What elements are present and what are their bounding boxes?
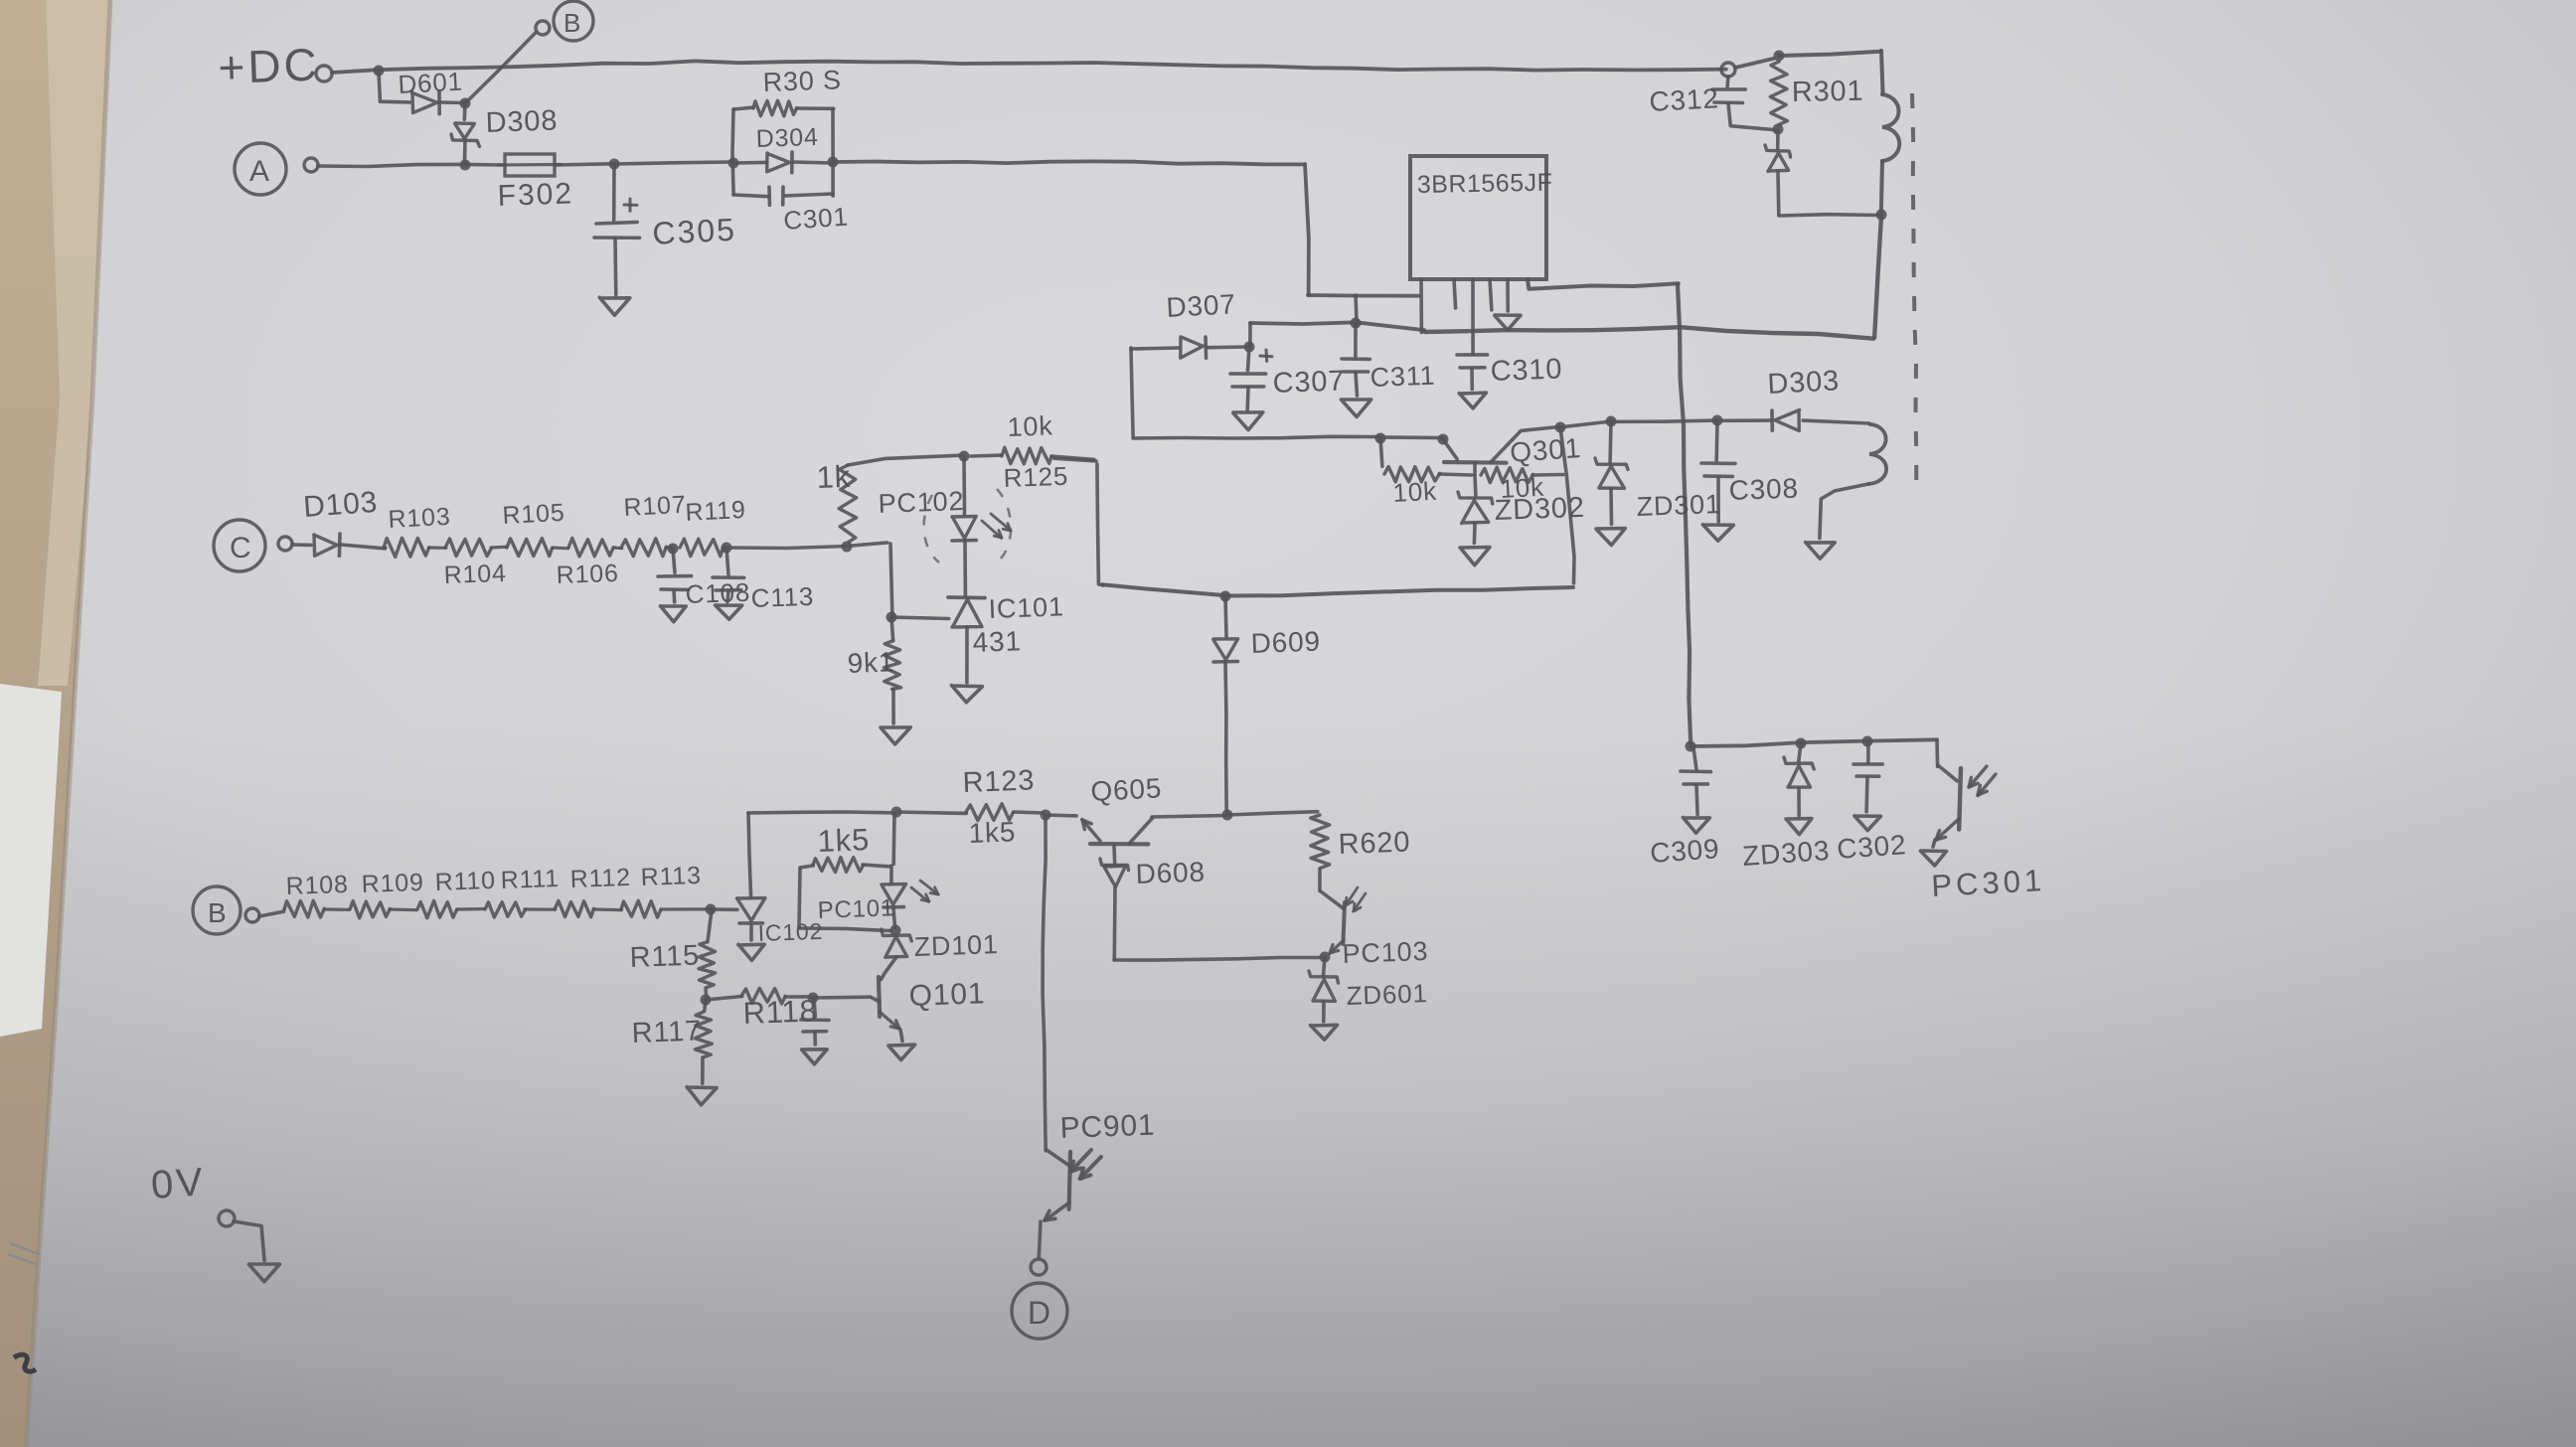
node ZD101 junction <box>890 925 901 936</box>
capacitor C308 <box>1701 421 1735 522</box>
svg-text:C302: C302 <box>1836 829 1907 865</box>
label C301 <box>782 201 849 235</box>
node C108 junction <box>668 544 679 555</box>
svg-text:C310: C310 <box>1490 353 1563 388</box>
label IC102 <box>757 918 823 946</box>
wire A-line to D304 block <box>614 162 731 164</box>
ground PC301 <box>1920 851 1946 866</box>
wire D303 line to Q301 <box>1562 421 1612 427</box>
capacitor C113 <box>713 548 744 602</box>
label 3BR1565JF <box>1417 169 1553 199</box>
label D308 <box>485 104 559 139</box>
svg-text:ZD601: ZD601 <box>1346 978 1428 1011</box>
label IC101 <box>988 591 1064 624</box>
svg-text:R104: R104 <box>443 560 507 589</box>
label R118 <box>742 993 818 1031</box>
svg-text:C311: C311 <box>1369 361 1436 393</box>
node PC901 junction <box>1041 810 1051 821</box>
label C305 <box>651 212 736 251</box>
label R113 <box>640 862 702 891</box>
label C307 <box>1272 365 1346 400</box>
svg-text:D601: D601 <box>398 67 464 99</box>
label ZD101 <box>913 929 999 962</box>
svg-text:IC101: IC101 <box>988 591 1064 624</box>
terminal B2 open circle <box>245 908 259 922</box>
svg-text:1k: 1k <box>816 459 852 495</box>
diode D103 <box>292 534 385 556</box>
wire drain rail <box>1425 327 1873 339</box>
svg-text:R301: R301 <box>1792 76 1864 108</box>
label 10k left <box>1392 476 1438 508</box>
svg-text:PC102: PC102 <box>878 486 965 519</box>
svg-text:D304: D304 <box>755 123 819 153</box>
svg-text:R107: R107 <box>623 491 687 522</box>
ground R117 <box>687 1087 717 1105</box>
wire D304 box left <box>732 109 733 194</box>
svg-text:ZD303: ZD303 <box>1741 835 1831 872</box>
wire A-line bottom segment <box>1308 293 1419 298</box>
label R117 <box>631 1016 702 1049</box>
zener ZD301 <box>1595 421 1628 525</box>
optocoupler PC102 LED <box>952 456 976 595</box>
svg-text:+DC: +DC <box>218 38 321 93</box>
svg-text:D608: D608 <box>1135 857 1206 889</box>
svg-text:D: D <box>1028 1295 1051 1331</box>
transistor Q605 <box>1046 815 1225 844</box>
wire A-line left <box>318 164 502 166</box>
ground IC102 <box>738 944 764 960</box>
svg-text:R108: R108 <box>285 871 349 900</box>
label R123 <box>962 764 1036 799</box>
fuse F302 <box>499 154 561 176</box>
resistor R125 <box>971 447 1094 464</box>
capacitor C310 <box>1457 355 1488 390</box>
label C108 <box>685 577 750 609</box>
light arrows PC101 <box>911 881 938 901</box>
wire primary bottom <box>1881 161 1882 214</box>
shunt reference IC101 431 <box>948 597 985 683</box>
node D609 rail junction <box>1222 810 1233 821</box>
node PC101 rail junction <box>891 807 902 818</box>
ground C311 <box>1341 400 1370 417</box>
label C308 <box>1728 473 1799 506</box>
terminal C circle <box>214 520 265 571</box>
diode D307 <box>1131 337 1247 358</box>
dashed outline PC102 <box>924 489 1011 563</box>
svg-text:F302: F302 <box>497 177 573 213</box>
zener ZD302 <box>1458 475 1493 544</box>
ground C305 <box>599 297 630 315</box>
ground C309 <box>1683 818 1709 834</box>
wire output rail <box>1690 739 1937 746</box>
node D601/D308/B junction <box>460 98 471 109</box>
label C311 <box>1369 361 1436 393</box>
thyristor IC102 <box>737 813 765 940</box>
svg-text:R125: R125 <box>1003 461 1068 493</box>
wire R118 to Q101 <box>813 995 871 999</box>
resistor 1k <box>839 455 961 552</box>
svg-text:C: C <box>230 532 251 564</box>
optocoupler PC901 transistor <box>1045 1150 1070 1220</box>
ground ZD303 <box>1786 819 1812 835</box>
label 10k right <box>1500 472 1545 504</box>
wire PC101 top drop <box>891 813 895 864</box>
wire base to transistor <box>1380 435 1443 439</box>
svg-text:R30 S: R30 S <box>762 65 842 97</box>
label F302 <box>497 177 573 213</box>
pin U301 p1 <box>1419 279 1423 333</box>
node R118 junction <box>808 993 819 1004</box>
ic U301 3BR1565JF box <box>1410 156 1546 279</box>
label D609 <box>1250 626 1321 659</box>
ground ZD601 <box>1311 1025 1338 1040</box>
wire ref to IC101 <box>891 617 949 619</box>
wire rail to R620 <box>1227 812 1318 815</box>
light arrows PC901 <box>1070 1150 1101 1179</box>
svg-text:C113: C113 <box>750 581 814 613</box>
light arrows PC103 <box>1346 887 1366 911</box>
resistor 9k1 <box>885 618 901 723</box>
ground C310 <box>1459 393 1486 408</box>
svg-text:431: 431 <box>972 625 1022 658</box>
pin U301 p4 <box>1490 279 1492 310</box>
diode D303 <box>1719 410 1870 431</box>
label R106 <box>556 560 619 589</box>
svg-text:C301: C301 <box>782 201 849 235</box>
zener ZD101 <box>882 929 912 980</box>
terminal D open circle <box>1031 1259 1046 1275</box>
label R119 <box>685 496 747 527</box>
terminal A open circle <box>304 158 318 172</box>
node C309 junction <box>1686 741 1696 752</box>
terminal B open circle <box>536 21 550 35</box>
svg-text:R111: R111 <box>500 865 560 894</box>
diode D304 <box>733 152 834 173</box>
terminal label 0V <box>150 1160 208 1207</box>
label R109 <box>361 869 424 898</box>
wire D307 left drop <box>1131 348 1133 436</box>
zener D608 <box>1100 846 1129 960</box>
wire D307 up elbow <box>1248 323 1252 347</box>
ground C308 <box>1702 525 1733 541</box>
label D103 <box>302 486 379 524</box>
wire snubber return <box>1779 215 1878 216</box>
paper edge shadow <box>26 0 110 1447</box>
wire PC901 drop <box>1043 815 1046 1151</box>
label Q301 <box>1509 432 1582 468</box>
wire D601 branch <box>379 71 409 102</box>
svg-text:PC101: PC101 <box>817 894 894 924</box>
terminal C open circle <box>278 537 292 551</box>
label D307 <box>1166 288 1237 323</box>
svg-text:C309: C309 <box>1649 833 1720 869</box>
optocoupler PC101 LED <box>882 866 906 928</box>
resistor 10k left <box>1380 438 1472 482</box>
label C310 <box>1490 353 1563 388</box>
wire secondary bottom <box>1820 484 1868 539</box>
pin U301 p3 <box>1471 279 1475 355</box>
transistor Q301 <box>1443 427 1558 474</box>
node Q301 collector junction <box>1555 422 1566 433</box>
node D304 right junction <box>828 157 839 168</box>
svg-text:R115: R115 <box>629 940 700 974</box>
svg-text:B: B <box>563 8 581 38</box>
svg-text:R117: R117 <box>631 1016 702 1049</box>
ground secondary <box>1806 543 1836 560</box>
node D304 left junction <box>728 158 739 169</box>
svg-text:IC102: IC102 <box>757 918 823 946</box>
zener D308 <box>451 103 479 163</box>
node primary bottom junction <box>1876 210 1887 221</box>
wire D608 to PC103 <box>1114 958 1323 961</box>
inductor T1 secondary <box>1868 424 1886 484</box>
svg-text:1k5: 1k5 <box>817 822 871 859</box>
svg-text:C312: C312 <box>1649 82 1720 117</box>
resistor R301 <box>1770 62 1787 124</box>
label D608 <box>1135 857 1206 889</box>
wire A-line corner down <box>1305 164 1309 295</box>
node PC102 top junction <box>959 451 970 462</box>
node R115 junction <box>706 904 717 915</box>
capacitor C at R118 <box>801 998 829 1045</box>
transistor Q101 <box>873 977 902 1041</box>
wire PC301 emitter <box>1933 840 1935 847</box>
white sheet lower left <box>0 684 62 1037</box>
label R107 <box>623 491 687 522</box>
wire +DC top rail <box>332 61 1726 73</box>
svg-text:D308: D308 <box>485 104 559 139</box>
pencil mark bottom left <box>14 1355 36 1371</box>
label R301 <box>1792 76 1864 108</box>
zener ZD303 <box>1784 743 1814 816</box>
node PC103 junction <box>1320 952 1331 963</box>
wire Q301 loop right side <box>1560 427 1574 583</box>
resistor 10k right <box>1481 467 1563 483</box>
label ZD601 <box>1346 978 1428 1011</box>
node Q301 base-left junction <box>1375 433 1386 444</box>
wire loop to R125 <box>1054 458 1096 461</box>
ground C307 <box>1233 412 1263 430</box>
ground C302 <box>1854 816 1881 831</box>
wire A-line to C305 <box>555 164 611 165</box>
wire feedback vertical <box>1678 284 1690 743</box>
diode D609 <box>1213 597 1238 812</box>
svg-text:C308: C308 <box>1728 473 1799 506</box>
terminal B circle <box>554 1 593 41</box>
wire to terminal B <box>465 33 536 103</box>
light arrows PC301 <box>1969 766 1996 796</box>
terminal 0V open circle <box>219 1210 235 1226</box>
ground 0V <box>249 1264 280 1282</box>
label PC301 <box>1931 863 2046 903</box>
ground C108 <box>661 606 687 622</box>
svg-text:1k5: 1k5 <box>968 816 1017 849</box>
node C308 junction <box>1712 415 1723 426</box>
wire D304 box right <box>831 109 835 196</box>
wire D307 top rail <box>1250 322 1424 330</box>
wire core dashed <box>1912 93 1916 499</box>
node ZD303 junction <box>1796 738 1807 749</box>
svg-text:R620: R620 <box>1338 826 1411 861</box>
resistor R305 <box>733 100 834 116</box>
ground ZD301 <box>1596 529 1625 546</box>
label R105 <box>502 499 565 530</box>
ground 9k1 <box>881 727 910 744</box>
label 9k1 <box>847 646 895 679</box>
resistor R115 <box>699 910 716 1000</box>
label R125 <box>1003 461 1068 493</box>
svg-text:C305: C305 <box>651 212 736 251</box>
light arrows PC102 <box>982 514 1011 538</box>
ground Q101 <box>888 1045 915 1059</box>
resistor chain R103-R107 <box>384 538 673 557</box>
node C302 junction <box>1862 736 1873 747</box>
svg-text:R113: R113 <box>640 862 702 891</box>
svg-text:R103: R103 <box>388 503 451 534</box>
label Q101 <box>908 977 986 1013</box>
wire Q301 base rail <box>1133 436 1378 438</box>
terminal A circle <box>235 143 286 195</box>
capacitor C301 <box>733 187 833 205</box>
wire rail to R123 <box>896 812 966 813</box>
node C305 junction <box>609 159 620 170</box>
svg-text:Q605: Q605 <box>1090 772 1163 807</box>
pencil scribble left edge <box>8 1243 40 1264</box>
svg-text:R110: R110 <box>434 867 496 896</box>
svg-text:0V: 0V <box>150 1160 208 1207</box>
capacitor C305 <box>594 164 640 295</box>
wire primary right drop <box>1881 51 1883 92</box>
capacitor C307 <box>1230 347 1272 409</box>
diode D601 <box>411 91 463 114</box>
zener ZD601 <box>1309 957 1339 1022</box>
diode snubber <box>1765 130 1791 215</box>
label R104 <box>443 560 507 589</box>
svg-text:9k1: 9k1 <box>847 646 895 679</box>
svg-text:10k: 10k <box>1392 476 1438 508</box>
label D304 <box>755 123 819 153</box>
wire Q605 rail left <box>748 812 893 813</box>
wire PC101 box left <box>799 869 800 927</box>
svg-text:C307: C307 <box>1272 365 1346 400</box>
ground IC101 <box>951 686 982 703</box>
label PC103 <box>1342 936 1429 969</box>
node junction +DC/D601 <box>374 66 385 77</box>
svg-text:R106: R106 <box>556 560 619 589</box>
wire loop left up <box>1097 464 1103 585</box>
label D303 <box>1767 365 1841 401</box>
node D307 junction <box>1244 342 1255 353</box>
desk edge left <box>0 0 111 1447</box>
node C113 junction <box>722 543 732 554</box>
wire C-line to 1k <box>726 543 887 549</box>
wire primary top <box>1779 52 1880 56</box>
label 431 <box>972 625 1022 658</box>
resistor R118 <box>706 988 811 1004</box>
pin U301 p5 <box>1506 279 1510 311</box>
label R112 <box>569 864 631 893</box>
wire PC101 box bottom <box>800 928 890 931</box>
wire down to 9k1 <box>890 544 892 615</box>
label R305 <box>762 65 842 97</box>
optocoupler PC301 transistor <box>1936 765 1961 840</box>
label ZD301 <box>1636 489 1721 522</box>
wire rail corner down <box>1935 740 1939 766</box>
ground C at R118 <box>802 1049 828 1064</box>
svg-text:D103: D103 <box>302 486 379 524</box>
resistor 1k5 PC101 <box>800 858 889 873</box>
pin U301 p6 to right <box>1528 279 1679 289</box>
wire chain to IC102 <box>711 907 737 911</box>
node R301 top junction <box>1774 51 1785 62</box>
label ZD302 <box>1494 492 1585 527</box>
label R110 <box>434 867 496 896</box>
wire PC901 emitter <box>1039 1221 1041 1258</box>
label PC102 <box>878 486 965 519</box>
node C311 junction <box>1351 318 1362 329</box>
resistor chain R108-R113 <box>259 900 708 918</box>
pin U301 p2 <box>1454 279 1456 308</box>
capacitor C311 <box>1342 323 1369 396</box>
svg-text:B: B <box>208 897 227 928</box>
wire 0V <box>234 1221 264 1260</box>
label 1k5 R123 <box>968 816 1017 849</box>
wire A-line long <box>833 161 1304 164</box>
svg-text:D303: D303 <box>1767 365 1841 401</box>
terminal B2 circle <box>193 886 241 934</box>
label C312 <box>1649 82 1720 117</box>
svg-text:R109: R109 <box>361 869 424 898</box>
node C312 open junction <box>1721 63 1735 77</box>
capacitor C312 <box>1712 77 1776 130</box>
resistor R620 <box>1311 815 1330 890</box>
node D609 junction <box>1220 591 1231 602</box>
terminal +DC open circle <box>316 66 332 81</box>
capacitor C108 <box>658 549 692 602</box>
capacitor C302 <box>1853 741 1882 812</box>
svg-text:3BR1565JF: 3BR1565JF <box>1417 169 1553 199</box>
ground ZD302 <box>1460 548 1490 565</box>
svg-text:D609: D609 <box>1250 626 1321 659</box>
capacitor C309 <box>1681 747 1711 815</box>
svg-text:R123: R123 <box>962 764 1036 799</box>
label R108 <box>285 871 349 900</box>
wire stub to D307 rail <box>1356 295 1357 321</box>
svg-text:ZD101: ZD101 <box>913 929 999 962</box>
node ZD301 junction <box>1606 416 1617 427</box>
resistor R117 <box>695 1000 712 1083</box>
node Q301 base dot <box>1438 434 1449 445</box>
terminal D circle <box>1012 1283 1067 1339</box>
label PC901 <box>1059 1109 1156 1145</box>
svg-text:PC301: PC301 <box>1931 863 2046 903</box>
label R115 <box>629 940 700 974</box>
node R117 junction <box>701 995 712 1006</box>
label ZD303 <box>1741 835 1831 872</box>
label 10k R125 <box>1007 410 1053 442</box>
node R301 bottom junction <box>1773 124 1784 135</box>
label PC101 <box>817 894 894 924</box>
svg-text:Q301: Q301 <box>1509 432 1582 468</box>
wire Q301 loop bottom <box>1102 584 1573 595</box>
label R103 <box>388 503 451 534</box>
svg-text:10k: 10k <box>1007 410 1053 442</box>
ground C113 <box>716 605 742 619</box>
label C113 <box>750 581 814 613</box>
optocoupler PC103 transistor <box>1321 891 1345 953</box>
resistor R123 <box>966 804 1043 821</box>
node A-line/D308 junction <box>460 160 471 171</box>
